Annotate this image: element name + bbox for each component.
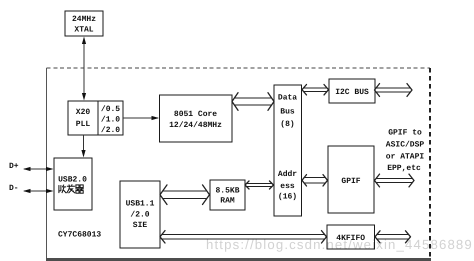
bus arrow: 8051 Core to Data Bus: [232, 93, 274, 111]
block: 8051 Core: [160, 95, 233, 142]
bus arrow: GPIF to external: [375, 174, 415, 187]
bus arrow: SIE to 4KFIFO (long): [160, 231, 327, 243]
svg-text:Bus: Bus: [280, 108, 295, 117]
svg-text:/2.0: /2.0: [101, 126, 120, 135]
svg-text:4KFIFO: 4KFIFO: [336, 234, 365, 243]
svg-text:or ATAPI: or ATAPI: [386, 152, 425, 161]
block: GPIF: [328, 146, 374, 213]
svg-text:/0.5: /0.5: [101, 105, 120, 114]
bus arrow: I2C BUS to external: [375, 84, 413, 97]
svg-text:8051 Core: 8051 Core: [174, 110, 217, 119]
svg-text:GPIF: GPIF: [341, 177, 360, 186]
bus arrow: 4KFIFO to external: [375, 231, 411, 243]
label: transceiver chinese char shou: [59, 185, 66, 194]
svg-text:12/24/48MHz: 12/24/48MHz: [169, 121, 222, 130]
svg-text:8.5KB: 8.5KB: [215, 187, 239, 196]
block: X20 PLL with divider: [68, 101, 123, 135]
wire: D+ to transceiver (double arrow): [24, 168, 52, 170]
svg-text:I2C BUS: I2C BUS: [335, 88, 369, 97]
svg-text:EPP,etc: EPP,etc: [387, 164, 421, 173]
block: 8.5KB RAM: [210, 180, 245, 210]
block: 24MHz XTAL: [65, 11, 103, 36]
svg-text:GPIF to: GPIF to: [388, 129, 422, 138]
block: Data Bus / Address bus: [274, 85, 302, 216]
svg-text:USB1.1: USB1.1: [126, 200, 155, 209]
label: transceiver chinese char fa: [67, 184, 75, 193]
svg-text:ASIC/DSP: ASIC/DSP: [386, 140, 425, 149]
chip boundary bottom solid bar: [46, 258, 431, 261]
svg-text:(16): (16): [278, 193, 297, 202]
svg-text:24MHz: 24MHz: [72, 15, 96, 24]
svg-text:PLL: PLL: [76, 120, 91, 129]
wire: PLL to USB2.0 transceiver: [83, 135, 85, 156]
bus arrow: Address bus to GPIF: [302, 175, 328, 186]
svg-text:(8): (8): [280, 120, 294, 129]
block: 4KFIFO: [327, 225, 375, 249]
svg-text:Data: Data: [278, 94, 297, 103]
svg-text:SIE: SIE: [133, 221, 148, 230]
chip boundary left solid edge: [46, 68, 48, 259]
block: I2C BUS: [329, 79, 375, 103]
svg-text:XTAL: XTAL: [74, 26, 93, 35]
svg-text:/1.0: /1.0: [101, 115, 120, 124]
block: USB2.0 transceiver: [54, 158, 92, 210]
svg-text:CY7C68013: CY7C68013: [58, 231, 101, 240]
chip boundary right dashed edge: [429, 68, 431, 259]
svg-text:Addr: Addr: [278, 170, 297, 179]
wire: XTAL to PLL (double arrow): [83, 38, 85, 99]
bus arrow: Data Bus to I2C BUS: [302, 85, 329, 95]
svg-text:D+: D+: [9, 162, 19, 171]
wire: PLL to 8051 Core: [123, 117, 158, 119]
svg-text:/2.0: /2.0: [130, 210, 149, 219]
bus arrow: RAM to Address bus: [245, 181, 274, 189]
svg-text:X20: X20: [76, 108, 91, 117]
svg-text:D-: D-: [9, 184, 19, 193]
svg-text:USB2.0: USB2.0: [58, 176, 87, 185]
svg-text:ess: ess: [280, 182, 295, 191]
label: transceiver chinese char qi: [75, 185, 84, 193]
svg-text:RAM: RAM: [220, 197, 235, 206]
block: USB1.1/2.0 SIE: [120, 181, 160, 248]
chip boundary top dashed edge: [47, 67, 431, 69]
wire: D- to transceiver (double arrow): [24, 190, 52, 192]
bus arrow: SIE to 8.5KB RAM: [160, 185, 210, 205]
